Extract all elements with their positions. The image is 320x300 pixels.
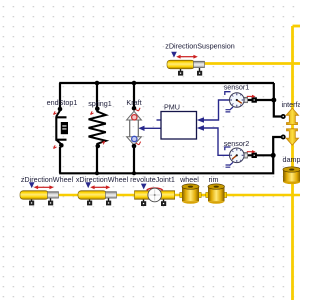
block PMU	[161, 103, 197, 140]
prismatic joint zDirectionWheel	[20, 175, 74, 206]
svg-text:zDirectionWheel: zDirectionWheel	[21, 175, 74, 184]
wire: spring1 top drop	[96, 83, 98, 107]
interface frame arrow (up)	[282, 100, 310, 125]
wire: top black rail	[59, 82, 274, 84]
pin: sensor2 flange square	[252, 153, 257, 158]
wire: spring1 bottom drop	[96, 147, 98, 173]
damper attach arrow (down)	[286, 129, 299, 145]
junction: spring1 on top rail	[95, 81, 100, 86]
wire: yellow frame top elbow	[293, 25, 301, 28]
wire: sensor2 flange to right vertical	[247, 154, 273, 156]
wire: endStop1 top drop	[59, 83, 61, 107]
component endStop1	[47, 98, 78, 149]
force component Kraft	[126, 98, 141, 148]
junction: sensor1 line on right vertical	[271, 98, 276, 103]
svg-text:spring1: spring1	[88, 99, 112, 108]
wire: yellow frame vertical (right side)	[291, 26, 294, 300]
pin: damper top connector	[281, 135, 286, 140]
junction: Kraft on top rail	[132, 81, 137, 86]
body damper (cylinder, clipped at right edge)	[283, 155, 308, 184]
svg-text:wheel: wheel	[179, 175, 199, 184]
junction: spring1 on lower rail	[95, 171, 99, 175]
pin: interface connector	[281, 114, 286, 119]
svg-text:PMU: PMU	[164, 103, 180, 112]
pin: sensor1 flange square	[252, 97, 257, 102]
signal: sensor2 to PMU input2	[197, 125, 230, 155]
junction: sensor2 line on right vertical	[271, 153, 276, 158]
wire: sensor1 flange to right vertical	[247, 99, 274, 101]
prismatic joint zDirectionSuspension	[165, 42, 235, 76]
sensor1 (gauge)	[224, 83, 256, 112]
svg-text:endStop1: endStop1	[47, 98, 78, 107]
wire: suspension output to right edge	[194, 62, 300, 65]
wire: Kraft top drop	[133, 83, 135, 107]
svg-text:xDirectionWheel: xDirectionWheel	[76, 175, 129, 184]
svg-text:sensor1: sensor1	[224, 83, 250, 92]
signal: sensor1 to PMU input1	[197, 100, 230, 123]
svg-text:rim: rim	[209, 175, 219, 184]
sensor2 (gauge)	[224, 139, 256, 167]
svg-text:Kraft: Kraft	[126, 98, 141, 107]
component spring1	[88, 99, 112, 148]
prismatic joint xDirectionWheel	[76, 175, 129, 206]
svg-text:damper: damper	[283, 155, 301, 164]
svg-text:revoluteJoint1: revoluteJoint1	[130, 175, 175, 184]
svg-text:zDirectionSuspension: zDirectionSuspension	[165, 42, 235, 51]
svg-text:interface: interface	[282, 100, 301, 109]
junction: Kraft on lower rail	[132, 171, 136, 175]
body rim (cylinder)	[206, 175, 227, 204]
wire: endStop1 bottom drop	[59, 147, 61, 173]
wire: Kraft bottom drop	[133, 147, 135, 173]
wire: top rail right corner down to interface pin	[274, 83, 281, 117]
PMU left unconnected stub	[157, 119, 162, 121]
wire: damper pin elbow down to lower rail	[59, 137, 281, 173]
revolute joint revoluteJoint1	[130, 175, 175, 206]
body wheel (cylinder)	[179, 175, 201, 204]
signal: PMU output to Kraft input	[138, 126, 161, 131]
wire: bottom yellow rail	[50, 194, 300, 197]
